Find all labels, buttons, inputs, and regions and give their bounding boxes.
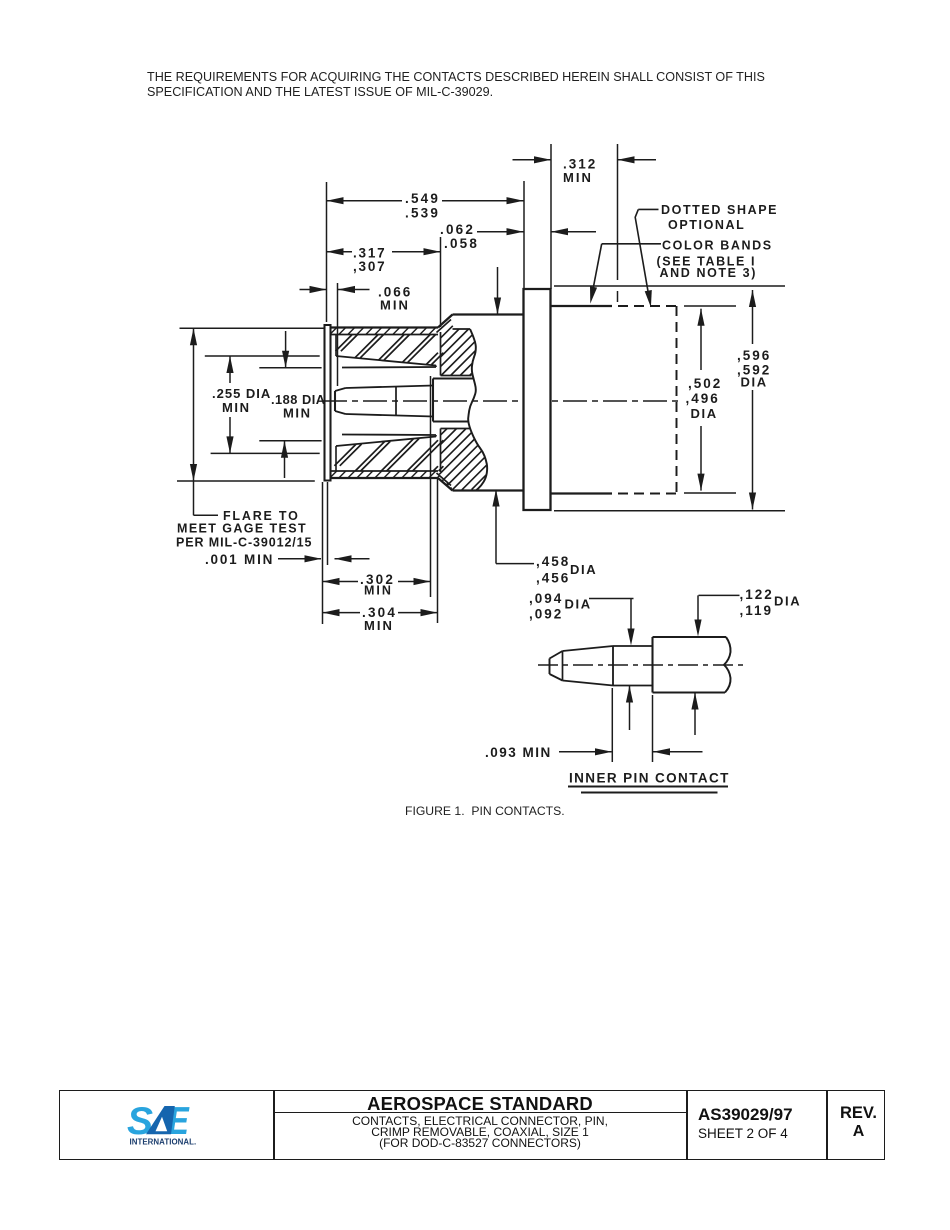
- svg-text:S: S: [127, 1100, 153, 1143]
- svg-text:INTERNATIONAL.: INTERNATIONAL.: [130, 1138, 197, 1147]
